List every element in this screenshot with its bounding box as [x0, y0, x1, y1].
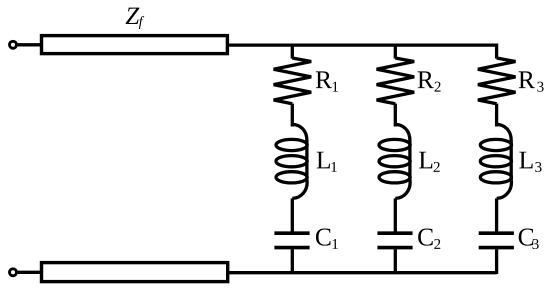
- wire bottom rail: [228, 271, 497, 274]
- inductor L3: [480, 124, 511, 198]
- label R1: [316, 71, 338, 91]
- terminal bottom-left: [10, 269, 17, 276]
- wire L1 to C1: [291, 198, 294, 231]
- wire R1 to L1: [291, 104, 294, 127]
- bottom transmission line box: [42, 263, 228, 282]
- wire branch 1 top lead: [291, 44, 294, 59]
- wire branch 3 top lead: [495, 44, 498, 59]
- inductor L1: [276, 124, 307, 198]
- resistor R3: [478, 58, 516, 104]
- transmission line box Zf: [42, 36, 228, 54]
- wire L2 to C2: [394, 198, 397, 231]
- label L3: [519, 152, 541, 172]
- wire C3 to bottom rail: [495, 249, 498, 274]
- label C1: [316, 229, 338, 249]
- label C3: [519, 229, 539, 250]
- label R3: [519, 71, 544, 91]
- label L1: [317, 152, 337, 172]
- wire R3 to L3: [495, 104, 498, 127]
- wire R2 to L2: [394, 104, 397, 127]
- capacitor C1: [274, 233, 309, 247]
- wire top rail: [227, 43, 496, 46]
- inductor L2: [379, 124, 410, 198]
- wire L3 to C3: [495, 198, 498, 231]
- resistor R1: [274, 58, 312, 104]
- capacitor C2: [377, 233, 412, 247]
- wire branch 2 top lead: [394, 44, 397, 59]
- label L2: [419, 152, 440, 172]
- wire terminal to bottom box: [18, 271, 43, 274]
- label R2: [418, 71, 441, 91]
- capacitor C3: [479, 233, 514, 247]
- terminal top-left: [10, 41, 17, 48]
- wire C2 to bottom rail: [394, 249, 397, 274]
- wire terminal to Zf box: [18, 43, 43, 46]
- resistor R2: [377, 58, 415, 104]
- wire C1 to bottom rail: [291, 249, 294, 274]
- label Zf: [126, 8, 145, 29]
- label C2: [418, 229, 440, 249]
